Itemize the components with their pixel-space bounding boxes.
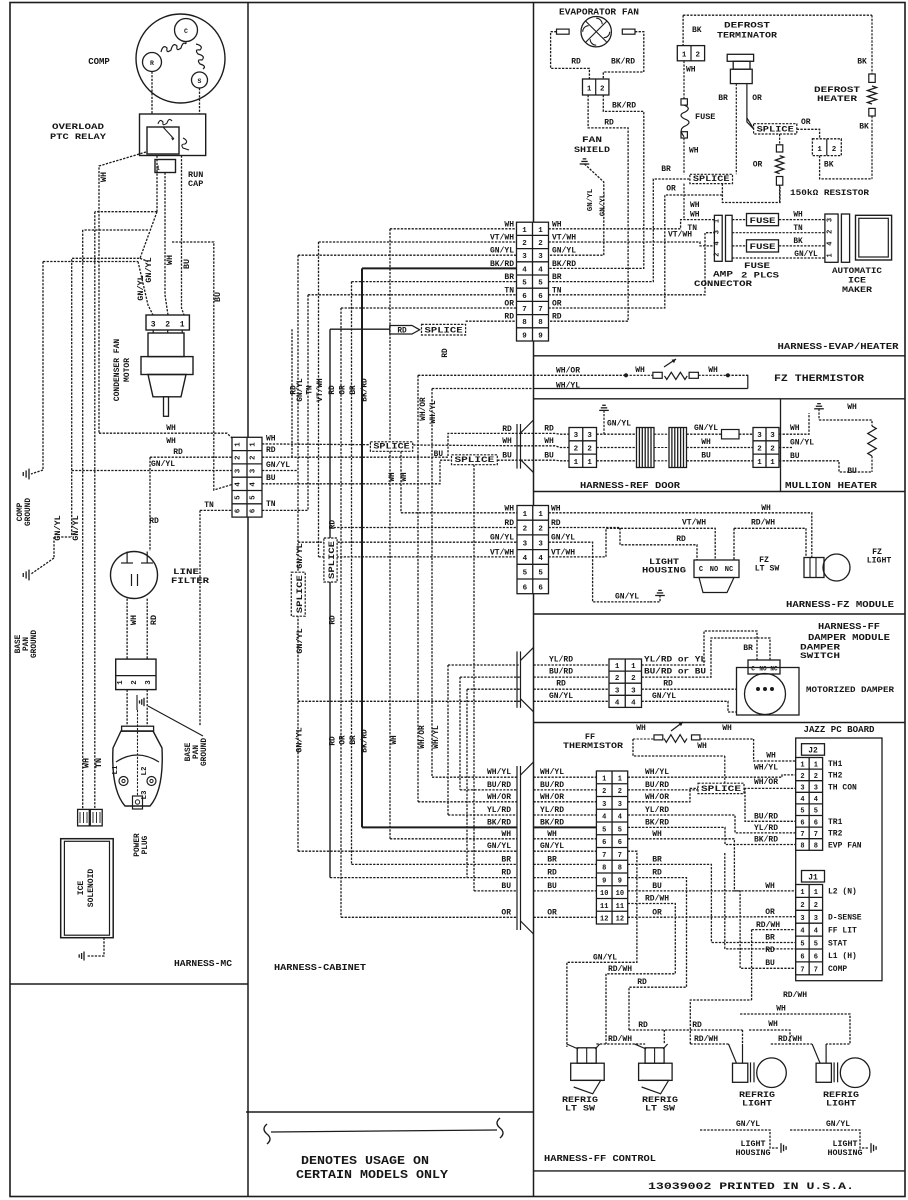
svg-text:6: 6 bbox=[538, 293, 543, 301]
svg-text:RD: RD bbox=[552, 313, 562, 322]
svg-text:BR: BR bbox=[718, 94, 728, 103]
svg-text:RD: RD bbox=[692, 1021, 702, 1030]
svg-text:1: 1 bbox=[250, 442, 258, 447]
svg-text:4: 4 bbox=[523, 555, 528, 563]
svg-text:WH/YL: WH/YL bbox=[430, 400, 438, 424]
svg-text:6: 6 bbox=[602, 839, 606, 847]
svg-text:6: 6 bbox=[814, 819, 818, 827]
svg-text:WH/YL: WH/YL bbox=[540, 768, 564, 777]
svg-text:OR: OR bbox=[765, 908, 775, 917]
svg-text:6: 6 bbox=[522, 293, 527, 301]
svg-text:12: 12 bbox=[616, 916, 624, 924]
svg-text:MAKER: MAKER bbox=[842, 286, 872, 295]
svg-text:BU: BU bbox=[547, 882, 557, 891]
svg-text:4: 4 bbox=[602, 814, 606, 822]
svg-text:OR: OR bbox=[652, 908, 662, 917]
svg-text:7: 7 bbox=[800, 831, 804, 839]
svg-text:GN/YL: GN/YL bbox=[593, 953, 617, 962]
svg-text:WH/OR: WH/OR bbox=[487, 793, 511, 802]
svg-text:HARNESS-FZ MODULE: HARNESS-FZ MODULE bbox=[786, 599, 894, 610]
svg-text:8: 8 bbox=[602, 865, 606, 873]
svg-text:RD: RD bbox=[544, 425, 554, 434]
svg-text:RD: RD bbox=[502, 425, 512, 434]
svg-text:2: 2 bbox=[800, 902, 804, 910]
svg-text:J2: J2 bbox=[808, 747, 818, 756]
svg-text:MULLION HEATER: MULLION HEATER bbox=[785, 480, 877, 491]
svg-text:3: 3 bbox=[827, 218, 835, 222]
svg-text:YL/RD or YL: YL/RD or YL bbox=[644, 656, 706, 665]
svg-text:SPLICE: SPLICE bbox=[455, 457, 495, 465]
svg-text:ICE: ICE bbox=[77, 881, 86, 896]
svg-text:4: 4 bbox=[538, 266, 543, 274]
svg-text:SPLICE: SPLICE bbox=[373, 444, 410, 452]
svg-text:RD: RD bbox=[442, 348, 450, 358]
svg-text:SHIELD: SHIELD bbox=[574, 145, 610, 155]
svg-text:BU: BU bbox=[652, 882, 662, 891]
svg-text:BK: BK bbox=[859, 123, 869, 132]
svg-text:D-SENSE: D-SENSE bbox=[828, 914, 862, 923]
svg-text:FF LIT: FF LIT bbox=[828, 926, 857, 935]
svg-text:HARNESS-FF: HARNESS-FF bbox=[818, 621, 880, 632]
svg-text:1: 1 bbox=[814, 889, 818, 897]
svg-text:GN/YL: GN/YL bbox=[490, 247, 514, 256]
svg-text:RD/WH: RD/WH bbox=[694, 1035, 718, 1044]
svg-text:RD: RD bbox=[637, 978, 647, 987]
svg-text:HARNESS-EVAP/HEATER: HARNESS-EVAP/HEATER bbox=[778, 341, 899, 352]
svg-text:RD: RD bbox=[504, 313, 514, 322]
svg-text:C: C bbox=[184, 28, 188, 35]
svg-text:YL/RD: YL/RD bbox=[540, 806, 564, 815]
svg-text:DAMPER MODULE: DAMPER MODULE bbox=[808, 632, 890, 643]
svg-text:WH/OR: WH/OR bbox=[754, 778, 778, 787]
svg-text:YL/RD: YL/RD bbox=[549, 656, 573, 665]
svg-text:3: 3 bbox=[523, 540, 528, 548]
svg-text:5: 5 bbox=[618, 826, 622, 834]
svg-text:EVP FAN: EVP FAN bbox=[828, 841, 862, 850]
svg-text:VT/WH: VT/WH bbox=[552, 234, 576, 243]
svg-text:VT/WH: VT/WH bbox=[317, 378, 325, 402]
svg-text:GN/YL: GN/YL bbox=[736, 1120, 760, 1129]
svg-text:1: 1 bbox=[814, 761, 818, 769]
svg-text:2: 2 bbox=[713, 252, 721, 256]
svg-text:2: 2 bbox=[832, 146, 837, 154]
svg-text:BR: BR bbox=[652, 855, 662, 864]
svg-text:HEATER: HEATER bbox=[817, 94, 858, 104]
svg-text:GN/YL: GN/YL bbox=[295, 727, 305, 753]
svg-text:1: 1 bbox=[587, 459, 592, 467]
svg-text:BU: BU bbox=[502, 451, 512, 460]
svg-text:VT/WH: VT/WH bbox=[551, 548, 575, 557]
svg-text:GN/YL: GN/YL bbox=[549, 692, 573, 701]
svg-text:BR: BR bbox=[661, 165, 671, 174]
svg-text:TN: TN bbox=[552, 286, 562, 295]
svg-text:150kΩ RESISTOR: 150kΩ RESISTOR bbox=[790, 188, 870, 198]
svg-text:BU/RD: BU/RD bbox=[549, 668, 573, 677]
svg-text:HARNESS-REF DOOR: HARNESS-REF DOOR bbox=[580, 480, 680, 491]
svg-text:AMP: AMP bbox=[713, 271, 733, 280]
svg-text:GN/YL: GN/YL bbox=[71, 515, 81, 541]
svg-text:OR: OR bbox=[504, 300, 514, 309]
svg-text:WH: WH bbox=[504, 220, 514, 229]
svg-text:DENOTES USAGE ON: DENOTES USAGE ON bbox=[301, 1155, 429, 1168]
svg-text:C: C bbox=[699, 566, 703, 574]
svg-text:RD: RD bbox=[547, 869, 557, 878]
svg-text:BU/RD: BU/RD bbox=[540, 781, 564, 790]
svg-text:11: 11 bbox=[600, 903, 608, 911]
svg-text:4: 4 bbox=[814, 796, 818, 804]
svg-text:4: 4 bbox=[618, 814, 622, 822]
svg-text:WH/OR: WH/OR bbox=[556, 366, 580, 375]
svg-text:BK/RD: BK/RD bbox=[362, 729, 370, 753]
svg-text:LIGHT: LIGHT bbox=[741, 1140, 766, 1149]
svg-text:3: 3 bbox=[770, 432, 775, 440]
svg-text:3: 3 bbox=[757, 432, 762, 440]
svg-text:WH: WH bbox=[690, 201, 700, 210]
svg-text:BK/RD: BK/RD bbox=[362, 378, 370, 402]
svg-text:WH: WH bbox=[552, 220, 562, 229]
svg-text:BR: BR bbox=[547, 855, 557, 864]
svg-text:7: 7 bbox=[618, 852, 622, 860]
svg-text:BR: BR bbox=[743, 644, 753, 653]
svg-text:BR: BR bbox=[350, 735, 358, 745]
svg-text:VT/WH: VT/WH bbox=[682, 519, 706, 528]
svg-text:CONNECTOR: CONNECTOR bbox=[694, 280, 752, 289]
svg-text:RD: RD bbox=[149, 615, 159, 625]
svg-text:YL/RD: YL/RD bbox=[487, 806, 511, 815]
svg-text:6: 6 bbox=[250, 508, 258, 513]
svg-text:WH: WH bbox=[389, 472, 397, 482]
svg-text:BU/RD: BU/RD bbox=[487, 781, 511, 790]
svg-text:WH: WH bbox=[708, 366, 718, 375]
svg-text:10: 10 bbox=[600, 890, 608, 898]
svg-text:BK: BK bbox=[824, 161, 834, 170]
svg-text:6: 6 bbox=[523, 584, 528, 592]
svg-text:1: 1 bbox=[615, 663, 620, 671]
svg-text:BK/RD: BK/RD bbox=[612, 102, 636, 111]
svg-text:WH: WH bbox=[401, 472, 409, 482]
svg-text:WH: WH bbox=[504, 504, 514, 513]
svg-text:WH: WH bbox=[501, 830, 511, 839]
svg-text:GN/YL: GN/YL bbox=[295, 543, 305, 569]
svg-text:WH/OR: WH/OR bbox=[419, 725, 427, 749]
svg-text:OR: OR bbox=[552, 300, 562, 309]
svg-text:9: 9 bbox=[602, 877, 606, 885]
svg-text:RD: RD bbox=[604, 119, 614, 128]
svg-text:1: 1 bbox=[538, 511, 543, 519]
svg-text:RD: RD bbox=[652, 869, 662, 878]
svg-text:MOTORIZED DAMPER: MOTORIZED DAMPER bbox=[806, 685, 895, 695]
svg-text:HARNESS-FF CONTROL: HARNESS-FF CONTROL bbox=[544, 1154, 656, 1164]
svg-text:2: 2 bbox=[631, 675, 636, 683]
svg-text:WH: WH bbox=[391, 735, 399, 745]
svg-text:GN/YL: GN/YL bbox=[615, 593, 639, 602]
svg-text:BU/RD: BU/RD bbox=[645, 781, 669, 790]
svg-text:BASE: BASE bbox=[15, 634, 23, 653]
svg-text:SPLICE: SPLICE bbox=[329, 541, 337, 579]
svg-text:2: 2 bbox=[522, 240, 527, 248]
svg-text:FUSE: FUSE bbox=[750, 244, 776, 252]
svg-text:WH: WH bbox=[551, 504, 561, 513]
svg-text:GN/YL: GN/YL bbox=[551, 534, 575, 543]
svg-text:TR2: TR2 bbox=[828, 830, 843, 839]
svg-text:COMP: COMP bbox=[828, 965, 847, 974]
svg-text:4: 4 bbox=[615, 699, 620, 707]
svg-text:BU: BU bbox=[434, 451, 444, 459]
svg-text:BU: BU bbox=[790, 452, 800, 461]
svg-text:RD/WH: RD/WH bbox=[778, 1035, 802, 1044]
svg-text:2: 2 bbox=[827, 230, 835, 234]
svg-text:HOUSING: HOUSING bbox=[736, 1149, 771, 1158]
svg-text:LIGHT: LIGHT bbox=[867, 557, 892, 566]
svg-text:5: 5 bbox=[800, 808, 804, 816]
svg-text:RD: RD bbox=[676, 535, 686, 544]
svg-text:2: 2 bbox=[618, 788, 622, 796]
svg-text:BK: BK bbox=[692, 26, 702, 35]
svg-text:MOTOR: MOTOR bbox=[123, 358, 132, 382]
svg-text:RD: RD bbox=[663, 680, 673, 689]
svg-text:3: 3 bbox=[631, 687, 636, 695]
svg-text:2: 2 bbox=[538, 240, 543, 248]
svg-text:WH: WH bbox=[697, 742, 707, 751]
svg-text:RD: RD bbox=[551, 519, 561, 528]
svg-text:8: 8 bbox=[522, 319, 527, 327]
svg-text:RD: RD bbox=[330, 736, 338, 746]
svg-text:5: 5 bbox=[800, 941, 804, 949]
svg-text:4: 4 bbox=[522, 266, 527, 274]
svg-text:5: 5 bbox=[522, 280, 527, 288]
svg-text:3: 3 bbox=[151, 321, 156, 330]
svg-text:OR: OR bbox=[340, 385, 348, 395]
svg-text:4: 4 bbox=[800, 928, 804, 936]
svg-text:RD: RD bbox=[397, 327, 407, 335]
svg-text:RD: RD bbox=[149, 517, 159, 526]
svg-text:3: 3 bbox=[800, 785, 804, 793]
svg-text:C: C bbox=[751, 666, 755, 673]
svg-text:1: 1 bbox=[800, 761, 804, 769]
svg-text:3: 3 bbox=[602, 801, 606, 809]
svg-text:RD: RD bbox=[556, 680, 566, 689]
svg-text:10: 10 bbox=[616, 890, 624, 898]
svg-text:7: 7 bbox=[538, 306, 543, 314]
svg-text:3: 3 bbox=[814, 785, 818, 793]
svg-text:WH: WH bbox=[790, 424, 800, 433]
svg-text:13039002 PRINTED IN U.S.A.: 13039002 PRINTED IN U.S.A. bbox=[648, 1182, 854, 1193]
svg-text:GN/YL: GN/YL bbox=[652, 692, 676, 701]
svg-text:GN/YL: GN/YL bbox=[552, 247, 576, 256]
svg-text:RD: RD bbox=[173, 448, 183, 457]
svg-text:OR: OR bbox=[340, 735, 348, 745]
svg-text:WH: WH bbox=[129, 615, 139, 625]
svg-text:3: 3 bbox=[574, 432, 579, 440]
svg-text:4: 4 bbox=[631, 699, 636, 707]
svg-text:BR: BR bbox=[552, 273, 562, 282]
svg-text:EVAPORATOR FAN: EVAPORATOR FAN bbox=[559, 8, 639, 18]
svg-text:6: 6 bbox=[618, 839, 622, 847]
svg-text:L2 (N): L2 (N) bbox=[828, 888, 857, 897]
svg-text:3: 3 bbox=[713, 230, 721, 234]
svg-text:FZ THERMISTOR: FZ THERMISTOR bbox=[774, 373, 865, 385]
svg-text:5: 5 bbox=[235, 495, 243, 500]
svg-text:1: 1 bbox=[770, 459, 775, 467]
svg-text:BR: BR bbox=[504, 273, 514, 282]
svg-text:GN/YL: GN/YL bbox=[297, 378, 305, 402]
svg-text:BASE: BASE bbox=[185, 742, 193, 761]
svg-text:11: 11 bbox=[616, 903, 624, 911]
svg-text:OR: OR bbox=[752, 94, 762, 103]
svg-text:1: 1 bbox=[522, 227, 527, 235]
svg-text:2: 2 bbox=[235, 455, 243, 460]
svg-text:3: 3 bbox=[618, 801, 622, 809]
svg-text:5: 5 bbox=[250, 495, 258, 500]
svg-text:BK/RD: BK/RD bbox=[540, 818, 564, 827]
svg-text:BU: BU bbox=[544, 451, 554, 460]
svg-text:RD: RD bbox=[638, 1021, 648, 1030]
svg-text:RD: RD bbox=[329, 385, 337, 395]
svg-text:BU/RD: BU/RD bbox=[754, 812, 778, 821]
svg-text:VT/WH: VT/WH bbox=[490, 234, 514, 243]
svg-text:WH/YL: WH/YL bbox=[645, 768, 669, 777]
svg-text:WH: WH bbox=[765, 882, 775, 891]
svg-text:GROUND: GROUND bbox=[201, 738, 209, 766]
svg-text:TN: TN bbox=[94, 758, 104, 768]
svg-text:FAN: FAN bbox=[582, 135, 602, 145]
svg-text:3: 3 bbox=[814, 915, 818, 923]
svg-text:8: 8 bbox=[800, 843, 804, 851]
svg-text:CAP: CAP bbox=[188, 179, 203, 189]
svg-text:5: 5 bbox=[538, 570, 543, 578]
svg-text:1: 1 bbox=[235, 442, 243, 447]
svg-text:BK/RD: BK/RD bbox=[645, 818, 669, 827]
svg-text:GN/YL: GN/YL bbox=[490, 534, 514, 543]
svg-text:3: 3 bbox=[522, 253, 527, 261]
svg-text:WH/YL: WH/YL bbox=[754, 764, 778, 773]
svg-text:4: 4 bbox=[713, 241, 721, 245]
svg-text:ICE: ICE bbox=[848, 277, 866, 286]
svg-text:2: 2 bbox=[814, 773, 818, 781]
svg-text:GN/YL: GN/YL bbox=[694, 424, 718, 433]
svg-text:1: 1 bbox=[587, 86, 592, 94]
svg-text:WH/YL: WH/YL bbox=[487, 768, 511, 777]
svg-text:HOUSING: HOUSING bbox=[642, 567, 686, 576]
svg-text:JAZZ PC BOARD: JAZZ PC BOARD bbox=[804, 724, 875, 735]
svg-text:BU: BU bbox=[501, 882, 511, 891]
svg-text:6: 6 bbox=[814, 953, 818, 961]
svg-text:2: 2 bbox=[757, 445, 762, 453]
svg-text:OR: OR bbox=[501, 908, 511, 917]
svg-text:SPLICE: SPLICE bbox=[297, 575, 305, 613]
svg-text:HARNESS-CABINET: HARNESS-CABINET bbox=[274, 963, 367, 973]
svg-text:2: 2 bbox=[587, 445, 592, 453]
svg-text:COMP: COMP bbox=[88, 57, 110, 67]
svg-text:RD/WH: RD/WH bbox=[608, 965, 632, 974]
svg-text:AUTOMATIC: AUTOMATIC bbox=[832, 267, 882, 276]
svg-text:BK/RD: BK/RD bbox=[487, 818, 511, 827]
svg-text:7: 7 bbox=[602, 852, 606, 860]
svg-text:1: 1 bbox=[682, 52, 687, 60]
svg-text:2: 2 bbox=[615, 675, 620, 683]
svg-text:2: 2 bbox=[800, 773, 804, 781]
svg-text:9: 9 bbox=[618, 877, 622, 885]
svg-text:TH2: TH2 bbox=[828, 772, 843, 781]
svg-text:TN: TN bbox=[307, 385, 315, 395]
svg-text:POWER: POWER bbox=[134, 833, 142, 857]
svg-text:TN: TN bbox=[687, 224, 697, 233]
svg-text:RD/WH: RD/WH bbox=[751, 519, 775, 528]
svg-text:8: 8 bbox=[538, 319, 543, 327]
svg-text:J1: J1 bbox=[808, 874, 818, 883]
svg-text:LIGHT: LIGHT bbox=[742, 1100, 772, 1109]
svg-text:LT SW: LT SW bbox=[755, 565, 780, 574]
svg-text:6: 6 bbox=[538, 584, 543, 592]
svg-text:6: 6 bbox=[800, 953, 804, 961]
svg-text:3: 3 bbox=[538, 253, 543, 261]
svg-text:5: 5 bbox=[523, 570, 528, 578]
svg-text:OR: OR bbox=[801, 118, 811, 127]
svg-text:3: 3 bbox=[145, 680, 153, 685]
svg-text:5: 5 bbox=[814, 808, 818, 816]
svg-text:BR: BR bbox=[350, 385, 358, 395]
svg-text:WH: WH bbox=[776, 1005, 786, 1014]
svg-text:R: R bbox=[150, 60, 154, 67]
svg-text:LIGHT: LIGHT bbox=[826, 1100, 856, 1109]
svg-text:WH: WH bbox=[635, 366, 645, 375]
svg-text:YL/RD: YL/RD bbox=[645, 806, 669, 815]
svg-text:1: 1 bbox=[827, 253, 835, 257]
svg-text:YL/RD: YL/RD bbox=[754, 824, 778, 833]
svg-text:GN/YL: GN/YL bbox=[136, 275, 146, 301]
svg-text:1: 1 bbox=[631, 663, 636, 671]
svg-text:WH: WH bbox=[761, 504, 771, 513]
svg-text:1: 1 bbox=[180, 321, 185, 330]
svg-text:LT SW: LT SW bbox=[645, 1105, 675, 1114]
svg-text:WH: WH bbox=[547, 830, 557, 839]
svg-text:WH: WH bbox=[99, 172, 109, 182]
svg-text:PLUG: PLUG bbox=[142, 835, 150, 854]
svg-text:SPLICE: SPLICE bbox=[693, 176, 730, 184]
svg-text:TN: TN bbox=[504, 286, 514, 295]
svg-text:9: 9 bbox=[538, 332, 543, 340]
svg-text:SPLICE: SPLICE bbox=[757, 126, 795, 134]
svg-text:WH: WH bbox=[766, 752, 776, 761]
svg-text:GN/YL: GN/YL bbox=[487, 842, 511, 851]
svg-text:OR: OR bbox=[547, 908, 557, 917]
svg-text:3: 3 bbox=[538, 540, 543, 548]
svg-text:TN: TN bbox=[204, 501, 214, 510]
svg-text:CONDENSER FAN: CONDENSER FAN bbox=[113, 339, 122, 402]
svg-text:1: 1 bbox=[523, 511, 528, 519]
svg-text:GROUND: GROUND bbox=[31, 630, 39, 658]
svg-text:CERTAIN MODELS ONLY: CERTAIN MODELS ONLY bbox=[296, 1169, 448, 1182]
svg-text:TR1: TR1 bbox=[828, 818, 843, 827]
svg-text:4: 4 bbox=[814, 928, 818, 936]
svg-text:L1: L1 bbox=[112, 765, 120, 775]
svg-text:STAT: STAT bbox=[828, 939, 847, 948]
svg-text:2: 2 bbox=[523, 526, 528, 534]
svg-text:NO: NO bbox=[710, 566, 718, 574]
svg-text:2: 2 bbox=[814, 902, 818, 910]
svg-text:GN/YL: GN/YL bbox=[790, 439, 814, 448]
svg-text:VT/WH: VT/WH bbox=[490, 548, 514, 557]
svg-text:RD: RD bbox=[765, 946, 775, 955]
svg-text:TN: TN bbox=[266, 500, 276, 509]
svg-text:BU: BU bbox=[765, 959, 775, 968]
svg-text:WH: WH bbox=[502, 437, 512, 446]
svg-text:PAN: PAN bbox=[23, 637, 31, 651]
svg-text:RD: RD bbox=[571, 58, 581, 67]
svg-text:2: 2 bbox=[165, 321, 170, 330]
svg-text:WH: WH bbox=[701, 438, 711, 447]
svg-text:WH: WH bbox=[165, 255, 175, 265]
